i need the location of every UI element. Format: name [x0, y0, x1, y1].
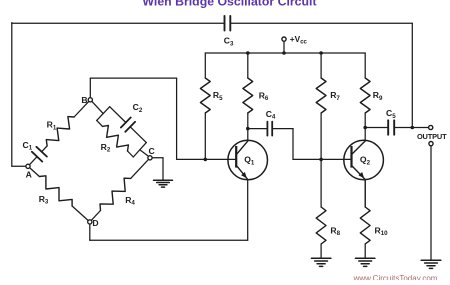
svg-text:OUTPUT: OUTPUT [417, 132, 447, 141]
svg-text:C: C [148, 146, 154, 156]
svg-text:A: A [26, 169, 32, 179]
svg-text:www.CircuitsToday.com: www.CircuitsToday.com [353, 274, 438, 280]
svg-text:B: B [81, 95, 87, 105]
svg-text:Wien Bridge Oscillator Circuit: Wien Bridge Oscillator Circuit [142, 0, 316, 9]
svg-text:D: D [92, 218, 98, 228]
